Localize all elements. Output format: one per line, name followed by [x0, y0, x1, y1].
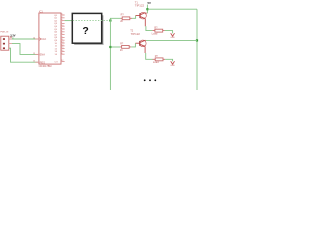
svg-text:13: 13	[33, 53, 35, 55]
wire T2 emitter down	[146, 53, 153, 59]
svg-text:12: 12	[61, 60, 63, 62]
svg-text:PWR_IN: PWR_IN	[0, 32, 9, 34]
svg-text:2K: 2K	[120, 20, 123, 23]
svg-text:14: 14	[61, 44, 63, 46]
svg-text:2: 2	[61, 16, 62, 18]
junction node B	[109, 46, 111, 48]
ground GND1	[170, 33, 175, 39]
junction node A	[109, 19, 111, 21]
ground GND2	[170, 61, 175, 67]
pin 13 ENA	[33, 53, 45, 57]
svg-text:3: 3	[61, 14, 62, 16]
mystery box	[72, 13, 103, 44]
svg-text:1: 1	[61, 28, 62, 30]
wire to R1	[110, 18, 120, 20]
junction 5V rail	[146, 8, 148, 10]
wire 5V top rail	[147, 8, 197, 10]
svg-text:R?: R?	[120, 43, 124, 46]
op IC1 CD4017 body	[39, 10, 61, 68]
svg-text:?: ?	[82, 25, 88, 37]
pin 12 CO	[55, 60, 65, 63]
svg-text:15: 15	[33, 61, 35, 63]
wire Load1 to GND	[165, 31, 173, 34]
svg-text:10: 10	[61, 25, 63, 27]
svg-text:8: 8	[61, 53, 62, 55]
svg-text:CO: CO	[55, 61, 59, 63]
wire dashed hidden net	[73, 20, 111, 22]
svg-text:ENA: ENA	[40, 53, 46, 57]
svg-text:IC1: IC1	[39, 10, 44, 13]
svg-text:6: 6	[61, 33, 62, 35]
svg-text:14: 14	[33, 37, 35, 39]
resistor Load2	[153, 55, 166, 64]
wire R1 to T1 base	[132, 16, 136, 19]
wire vertical bus	[109, 21, 111, 91]
svg-text:11: 11	[61, 39, 63, 41]
transistor T2 TIP122	[130, 28, 146, 53]
svg-text:RES: RES	[40, 60, 46, 64]
wire 5V right drop	[196, 9, 198, 90]
wire Load2 to GND	[165, 59, 173, 61]
svg-text:15: 15	[61, 47, 63, 49]
wire to R2	[110, 46, 120, 48]
wire Q2 to box	[65, 20, 73, 22]
pins Q0-Q9	[54, 14, 65, 56]
svg-text:13: 13	[61, 42, 63, 44]
svg-text:7: 7	[61, 22, 62, 24]
svg-text:4: 4	[61, 19, 62, 21]
wire RES net	[9, 48, 38, 62]
svg-text:9: 9	[61, 36, 62, 38]
wire lower rail	[146, 39, 197, 41]
svg-text:2K: 2K	[120, 49, 123, 52]
svg-text:GND: GND	[170, 65, 175, 67]
pin 15 RES	[33, 60, 45, 64]
supply 5V	[147, 1, 151, 13]
supply 3.3V	[10, 33, 16, 39]
wire CLK net	[12, 38, 38, 40]
svg-text:GND: GND	[170, 37, 175, 39]
svg-text:TIP122: TIP122	[131, 32, 141, 36]
wire R2 to T2 base	[131, 43, 135, 47]
wire ENA net	[12, 44, 38, 55]
transistor T1 TIP122	[135, 0, 148, 26]
resistor R2 2K	[120, 43, 131, 52]
svg-text:R?: R?	[121, 14, 125, 17]
svg-text:CLK: CLK	[42, 38, 47, 41]
svg-text:CD4017BM: CD4017BM	[39, 65, 52, 68]
pin 14 CLK	[33, 37, 47, 41]
junction rail corner	[196, 39, 198, 41]
connector JP1	[0, 32, 12, 51]
resistor R1 2K	[120, 14, 132, 23]
svg-text:TIP122: TIP122	[135, 4, 145, 8]
svg-text:Load: Load	[153, 60, 159, 64]
svg-text:5V: 5V	[148, 1, 152, 5]
svg-text:16: 16	[61, 50, 63, 52]
svg-text:Load: Load	[152, 31, 158, 35]
svg-text:5: 5	[61, 30, 62, 32]
wire T1 emitter down	[146, 26, 152, 30]
ellipsis continuation dots	[144, 79, 156, 81]
resistor Load1	[152, 26, 165, 35]
